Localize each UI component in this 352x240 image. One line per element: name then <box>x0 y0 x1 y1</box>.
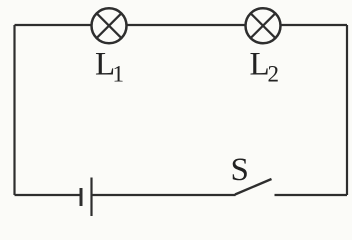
wire bottom left segment <box>15 194 81 196</box>
wire left vertical <box>13 25 15 195</box>
svg-text:1: 1 <box>113 62 125 87</box>
switch S arm <box>235 179 272 195</box>
wire battery-to-switch segment <box>92 194 236 196</box>
battery positive plate (long) <box>90 178 92 217</box>
battery negative plate (short) <box>80 188 83 206</box>
lamp L2 <box>246 8 281 43</box>
wire bottom right segment <box>275 194 348 196</box>
wire right vertical <box>346 25 348 195</box>
svg-text:2: 2 <box>268 62 280 87</box>
wire top horizontal <box>15 24 348 26</box>
svg-text:S: S <box>231 152 249 188</box>
lamp L1 <box>92 8 127 43</box>
